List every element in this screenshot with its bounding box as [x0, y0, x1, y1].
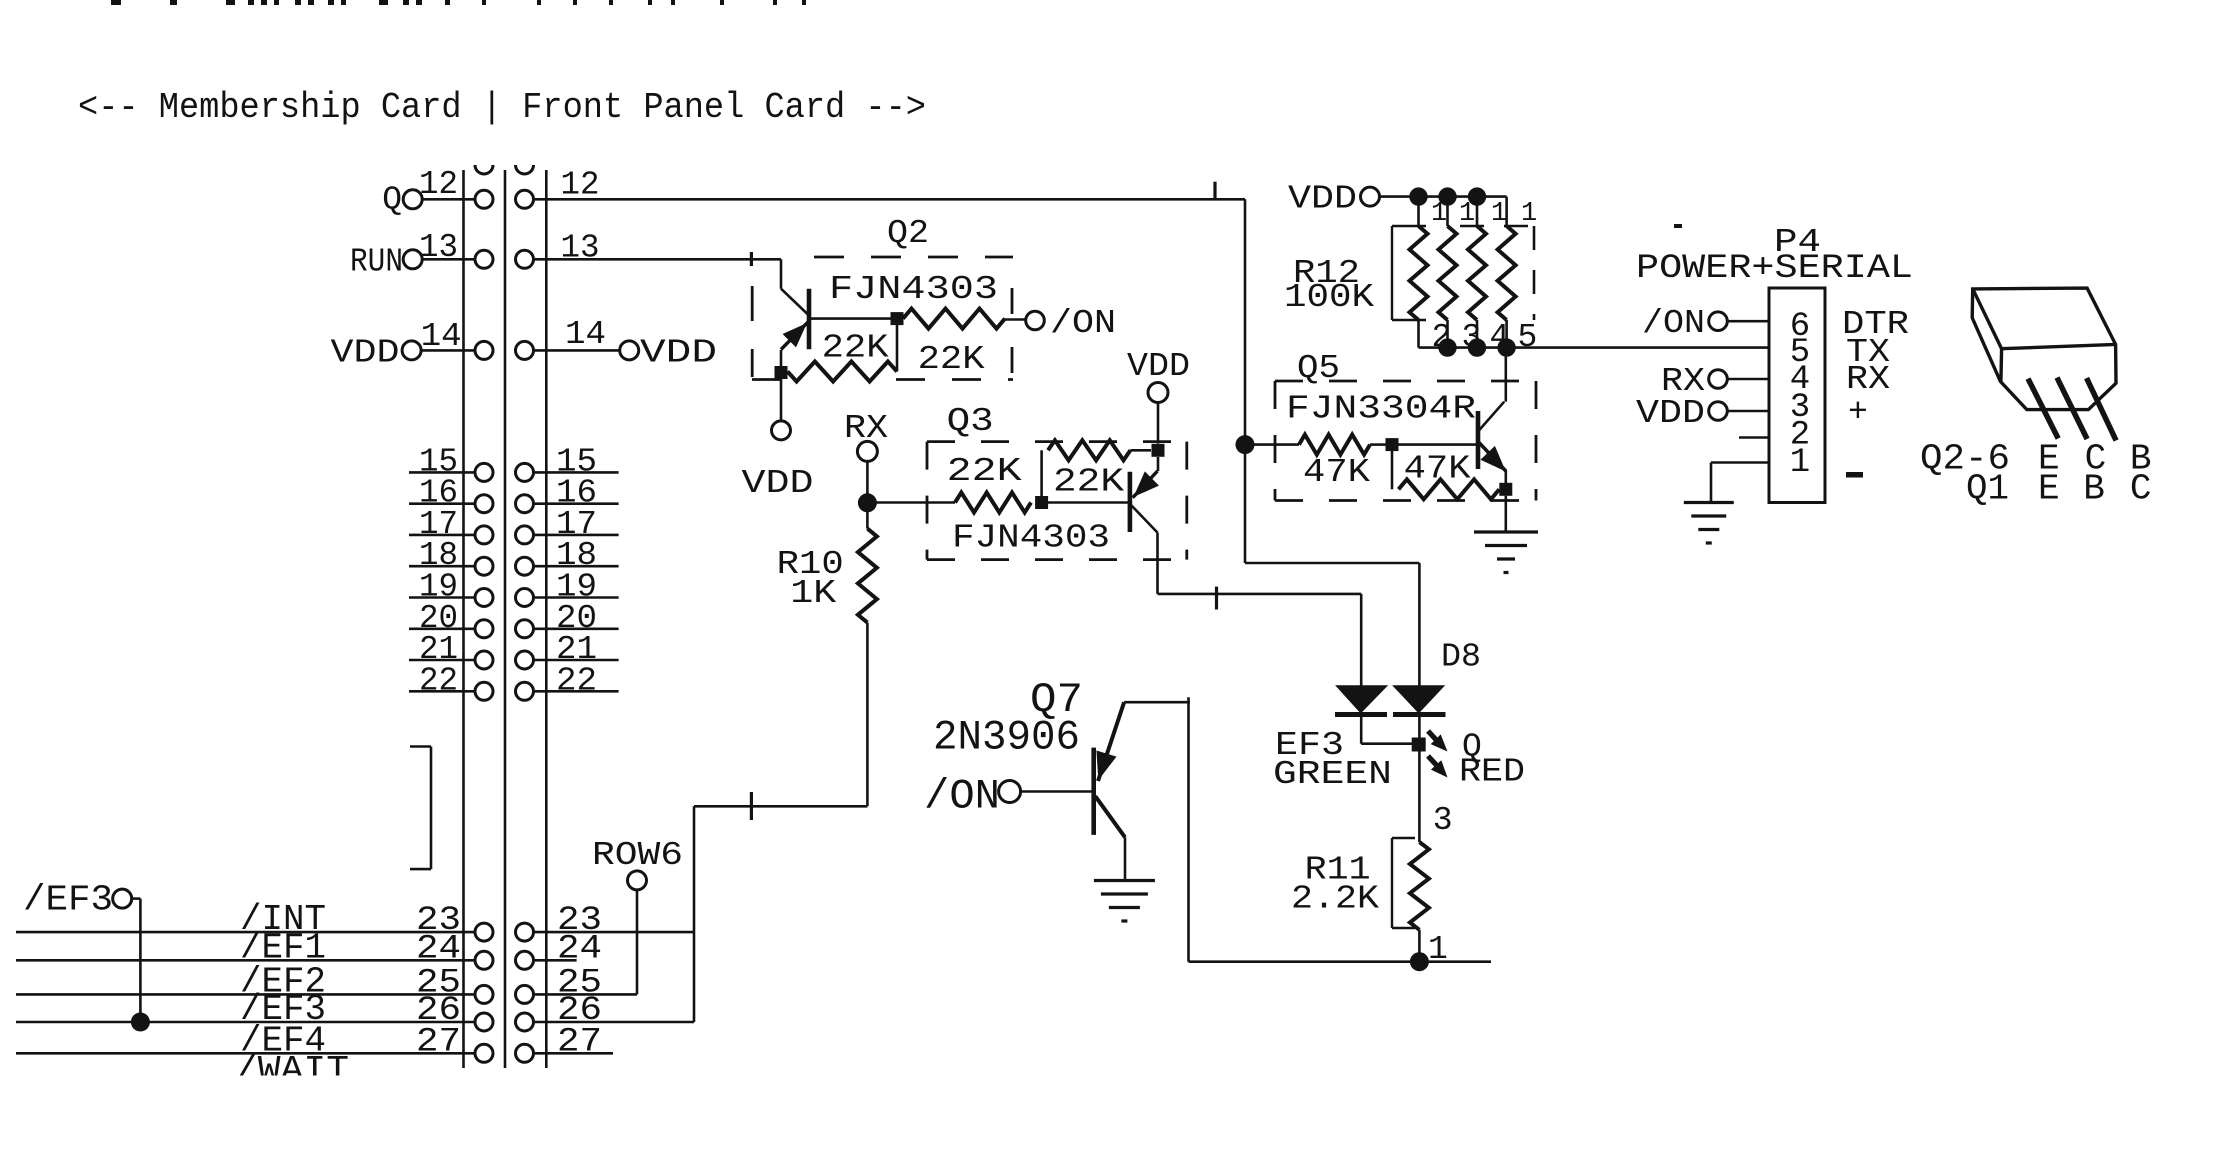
connector P4 body — [1769, 288, 1825, 503]
pin 16 labels — [419, 475, 597, 512]
wire R12 bottom bus to P4 pin 5 — [1419, 346, 1769, 349]
tick on R10 bottom wire — [750, 792, 753, 820]
pin 17 left circle — [475, 526, 493, 544]
package pinout row Q1 — [1966, 469, 2152, 510]
pin labels 1 1 1 1 — [1431, 199, 1537, 229]
node /EF3 terminal — [23, 880, 132, 921]
node /ON terminal P4 — [1642, 305, 1727, 342]
junction square Q2 base node — [891, 312, 904, 325]
P4 signal + — [1848, 394, 1868, 431]
svg-text:1: 1 — [1428, 931, 1448, 968]
label R11 — [1305, 852, 1371, 889]
wire to pins 23/26 — [693, 806, 696, 932]
ground P4 — [1684, 503, 1734, 544]
resistor R12 element 2 — [1439, 197, 1457, 348]
pin 17 right circle — [516, 526, 534, 544]
svg-text:D8: D8 — [1441, 639, 1481, 676]
pin 25 left circle — [475, 985, 493, 1003]
node RX terminal — [844, 410, 888, 461]
junction bus d — [1497, 338, 1515, 356]
svg-text:22K: 22K — [1053, 464, 1124, 501]
junction R12 pin1 c — [1468, 187, 1486, 205]
svg-text:RUN: RUN — [350, 243, 403, 280]
transistor Q7 base bar — [1091, 748, 1096, 835]
node VDD terminal under Q2 — [742, 421, 814, 502]
wire P4 pin 1 to ground — [1711, 463, 1769, 503]
P4 signal DTR — [1842, 306, 1909, 343]
wire Q5 emitter to node — [1505, 470, 1508, 483]
svg-text:24: 24 — [416, 930, 461, 968]
junction R11 bottom — [1410, 952, 1429, 971]
wire /INT pin 23 left — [16, 931, 484, 934]
wire RUN to connector — [422, 258, 484, 261]
svg-text:POWER+SERIAL: POWER+SERIAL — [1636, 250, 1913, 288]
label GREEN — [1273, 756, 1392, 793]
svg-text:5: 5 — [1518, 319, 1538, 356]
pin 23 right circle — [516, 923, 534, 941]
P4 signal TX — [1846, 334, 1890, 371]
svg-text:VDD: VDD — [1288, 181, 1357, 218]
svg-text:2.2K: 2.2K — [1291, 881, 1379, 918]
node /ON terminal Q2 — [1026, 305, 1116, 342]
net label /EF1 — [240, 927, 326, 968]
node /ON terminal Q7 — [924, 773, 1021, 821]
svg-text:1: 1 — [1491, 199, 1507, 229]
transistor Q3 label — [947, 403, 994, 440]
transistor Q2 emitter lead — [781, 321, 809, 350]
wire pin 15 right — [533, 471, 619, 474]
pin 13 left circle — [475, 250, 493, 268]
svg-text:C: C — [2130, 469, 2152, 510]
connector P4 label — [1774, 224, 1821, 261]
wire /EF2 pin 25 left — [16, 993, 484, 996]
pin 18 right circle — [516, 557, 534, 575]
svg-text:22K: 22K — [822, 330, 889, 367]
node VDD terminal right — [620, 335, 717, 372]
wire RUN net from pin 13 — [533, 258, 781, 261]
wire base node to Q5 — [1399, 443, 1479, 446]
wire Q2 base to node — [809, 317, 891, 320]
svg-text:13: 13 — [561, 230, 600, 267]
wire pin 17 right — [533, 534, 619, 537]
wire RX down — [866, 461, 869, 529]
transistor Q5 collector lead — [1478, 348, 1506, 432]
label R10 — [777, 546, 844, 583]
label 22K pullup — [1053, 464, 1124, 501]
transistor Q5 dashed box — [1275, 381, 1536, 501]
P4 pin number 3 — [1790, 389, 1810, 427]
wire pin 19 right — [533, 596, 619, 599]
pin 15 right circle — [516, 463, 534, 481]
svg-text:ROW6: ROW6 — [592, 837, 683, 874]
pin 19 labels — [419, 569, 597, 606]
node VDD terminal P4 — [1636, 395, 1727, 432]
pin 11 cut circles at top — [475, 165, 534, 174]
resistor R12 element 1 — [1410, 197, 1428, 348]
LED D8 red triangle — [1392, 685, 1445, 713]
node RUN terminal — [350, 243, 422, 280]
pin 23 left circle — [475, 923, 493, 941]
wire Q7 emitter to D8 net — [1124, 697, 1190, 961]
wire Q net to D8 — [1245, 563, 1419, 686]
svg-text:VDD: VDD — [1636, 395, 1705, 432]
pin 16 right circle — [516, 495, 534, 513]
pin 27 left circle — [475, 1044, 493, 1062]
stub P4 pin 2 — [1739, 436, 1769, 439]
net label /EF2 — [240, 961, 326, 1002]
bracket right of rows 23-27 gap — [410, 747, 431, 870]
net label /INT — [240, 899, 326, 940]
pin 13 right circle — [516, 250, 534, 268]
R12 dashed right edge — [1460, 226, 1534, 320]
LED arrow 1 — [1428, 731, 1448, 752]
svg-text:VDD: VDD — [640, 335, 717, 372]
pin 26 left circle — [475, 1013, 493, 1031]
junction R12 pin1 a — [1409, 187, 1427, 205]
junction square Q3 in-node — [1035, 496, 1048, 509]
svg-text:Q: Q — [382, 181, 402, 218]
net label /EF4 — [240, 1020, 326, 1061]
wire Q3 to D8 green — [1158, 594, 1362, 686]
stray dash mark — [1674, 224, 1682, 228]
transistor Q3 dashed box — [927, 442, 1187, 560]
node VDD terminal above Q3 — [1127, 348, 1190, 403]
tick on D8 wire — [1215, 587, 1218, 610]
svg-text:24: 24 — [557, 930, 602, 968]
pin 18 left circle — [475, 557, 493, 575]
transistor Q7 part number 2N3906 — [933, 714, 1080, 762]
svg-text:14: 14 — [565, 316, 606, 353]
pin 25 right circle — [516, 985, 534, 1003]
transistor Q3 emitter lead — [1133, 457, 1159, 498]
wire pin 19 left — [409, 596, 484, 599]
svg-text:Q1: Q1 — [1966, 469, 2009, 510]
connector P4 title POWER+SERIAL — [1636, 250, 1913, 288]
transistor Q2 collector lead — [781, 259, 809, 315]
pin 18 labels — [419, 537, 597, 574]
wire /ON to Q7 base — [1021, 790, 1094, 793]
wire VDD rail R12 — [1380, 195, 1507, 198]
svg-text:13: 13 — [419, 229, 458, 266]
wire pin 23 to pin 26 vertical — [693, 932, 696, 1022]
transistor Q3 part number FJN4303 — [952, 520, 1110, 557]
pin 21 labels — [419, 631, 597, 668]
junction square Q5 base node — [1386, 438, 1399, 451]
resistor R12 element 4 — [1498, 197, 1516, 348]
svg-text:47K: 47K — [1303, 454, 1370, 491]
label 47K base — [1303, 454, 1370, 491]
LED D8 red cathode bar — [1393, 712, 1446, 717]
transistor Q5 emitter lead — [1478, 442, 1506, 472]
junction square Q2 emitter node — [775, 366, 788, 379]
pin 14 left circle — [475, 341, 493, 359]
ground Q7 — [1094, 881, 1155, 922]
pin 20 right circle — [516, 620, 534, 638]
P4 pin number 5 — [1790, 334, 1810, 372]
junction square D8 node — [1412, 738, 1426, 752]
pin 12 right circle — [516, 190, 534, 208]
wire pin 18 left — [409, 565, 484, 568]
svg-text:22K: 22K — [918, 341, 985, 378]
transistor package TO-92 outline — [1972, 288, 2116, 410]
pin 24 labels — [416, 930, 602, 968]
svg-text:VDD: VDD — [331, 334, 400, 371]
label RED — [1459, 754, 1525, 791]
wire pin 23 right — [533, 931, 694, 934]
junction /EF3 — [131, 1013, 150, 1032]
wire Q5 emitter to ground — [1505, 496, 1508, 531]
svg-text:3: 3 — [1433, 802, 1453, 839]
svg-text:12: 12 — [419, 166, 458, 203]
svg-text:RX: RX — [1846, 361, 1890, 398]
title text — [78, 87, 926, 128]
R12 bracket — [1392, 226, 1426, 320]
svg-text:/ON: /ON — [1642, 305, 1705, 342]
wire Q2 emitter to VDD — [780, 350, 783, 421]
junction Q5 base net — [1236, 435, 1255, 454]
resistor R12 element 3 — [1468, 197, 1486, 348]
svg-text:GREEN: GREEN — [1273, 756, 1392, 793]
pin 19 right circle — [516, 589, 534, 607]
pin 16 left circle — [475, 495, 493, 513]
svg-text:<-- Membership Card | Front Pa: <-- Membership Card | Front Panel Card -… — [78, 87, 926, 128]
transistor Q2 dashed box — [752, 257, 1013, 380]
wire Q net from pin 12 — [533, 198, 1245, 201]
junction R12 pin1 b — [1438, 187, 1456, 205]
wire pin 15 left — [409, 471, 484, 474]
svg-text:47K: 47K — [1404, 451, 1471, 488]
svg-text:/ON: /ON — [924, 773, 1000, 821]
svg-text:+: + — [1848, 394, 1868, 431]
P4 signal RX — [1846, 361, 1890, 398]
svg-text:1: 1 — [1521, 199, 1537, 229]
pin 14 right circle — [516, 341, 534, 359]
resistor R10 1K — [858, 529, 877, 623]
P4 signal - (minus) — [1846, 472, 1863, 478]
label 2.2K — [1291, 881, 1379, 918]
node RX terminal P4 — [1661, 363, 1727, 400]
svg-text:VDD: VDD — [742, 465, 814, 502]
cut-off text remnants at top edge — [111, 0, 806, 5]
svg-text:22: 22 — [556, 662, 597, 699]
label pin 3 — [1433, 802, 1453, 839]
pin labels 2 3 4 5 — [1432, 319, 1538, 356]
label Q — [1462, 729, 1482, 766]
label 100K — [1284, 279, 1374, 316]
wire node to Q3 base — [1048, 501, 1130, 504]
P4 pin number 4 — [1790, 361, 1810, 399]
P4 pin number 2 — [1790, 417, 1810, 455]
wire pin 26 right — [533, 1021, 694, 1024]
pin 20 labels — [419, 600, 597, 637]
svg-text:1: 1 — [1790, 444, 1810, 482]
wire pin 27 right — [533, 1052, 613, 1055]
transistor Q5 part number FJN3304R — [1286, 391, 1476, 428]
transistor Q3 base bar — [1128, 472, 1133, 532]
junction square Q3 emitter node — [1152, 444, 1165, 457]
pin 15 left circle — [475, 463, 493, 481]
wire VDD to P4 pin 3 — [1727, 410, 1769, 413]
wire pin 20 left — [409, 627, 484, 630]
junction RX node — [858, 493, 877, 512]
P4 pin number 1 — [1790, 444, 1810, 482]
pin 21 left circle — [475, 651, 493, 669]
pin 21 right circle — [516, 651, 534, 669]
node ROW6 terminal — [592, 837, 683, 890]
transistor Q7 emitter lead — [1096, 702, 1124, 781]
label 1K — [790, 575, 836, 612]
svg-text:22K: 22K — [947, 453, 1022, 490]
transistor Q7 label — [1030, 676, 1083, 724]
wire D8 bottom bus — [1189, 960, 1492, 963]
svg-text:27: 27 — [557, 1023, 602, 1061]
LED arrow 2 — [1428, 756, 1448, 778]
wire /EF3 terminal down to /EF3 net — [131, 899, 140, 1022]
svg-text:/EF3: /EF3 — [23, 880, 113, 921]
label pin 1 — [1428, 931, 1448, 968]
wire pin 25 right — [533, 993, 637, 996]
wire pin 16 left — [409, 502, 484, 505]
wire Q3 collector down — [1156, 533, 1159, 594]
net label /EF3 — [240, 989, 326, 1030]
connector rail right — [545, 170, 548, 1068]
resistor Q2 22K (base-emitter) — [788, 325, 898, 382]
wire VDD to connector — [421, 349, 484, 352]
wire pin 21 right — [533, 659, 619, 662]
ground Q5 — [1474, 532, 1538, 573]
pin 27 labels — [416, 1023, 602, 1061]
transistor Q2 base bar — [807, 289, 812, 350]
pin 24 left circle — [475, 951, 493, 969]
LED D8 green cathode bar — [1335, 712, 1387, 717]
wire R10 bottom — [694, 623, 867, 807]
svg-text:FJN4303: FJN4303 — [952, 520, 1110, 557]
svg-text:1K: 1K — [790, 575, 836, 612]
connector rail middle — [504, 170, 507, 1068]
svg-text:FJN3304R: FJN3304R — [1286, 391, 1476, 428]
wire red cathode through node — [1418, 716, 1421, 842]
resistor R11 2.2K — [1410, 842, 1429, 962]
pin 26 right circle — [516, 1013, 534, 1031]
wire pin 24 right — [533, 959, 577, 962]
wire pin 22 right — [533, 690, 619, 693]
svg-text:/ON: /ON — [1050, 305, 1116, 342]
resistor Q3 22K series — [955, 493, 1031, 513]
package pinout row Q2-6 — [1920, 439, 2152, 480]
wire pin 21 left — [409, 659, 484, 662]
wire pin14 to VDD terminal right — [533, 349, 620, 352]
svg-text:Q3: Q3 — [947, 403, 994, 440]
pin 26 labels — [416, 992, 602, 1030]
connector J1/J2 card-edge rail left — [462, 170, 465, 1068]
pin 20 left circle — [475, 620, 493, 638]
svg-text:12: 12 — [561, 167, 600, 204]
package lead E — [2028, 379, 2058, 439]
transistor Q2 part number FJN4303 — [829, 271, 998, 308]
transistor Q5 base bar — [1476, 411, 1481, 469]
pin 23 labels — [416, 902, 602, 940]
junction bus b — [1438, 338, 1456, 356]
wire RX to P4 pin 4 — [1727, 378, 1769, 381]
wire RX node to R 22K — [867, 501, 955, 504]
pin 12 left circle — [475, 190, 493, 208]
junction square Q5 emitter node — [1499, 483, 1512, 496]
resistor Q5 47K base — [1299, 435, 1386, 455]
P4 pin number 6 — [1790, 308, 1810, 346]
svg-text:FJN4303: FJN4303 — [829, 271, 998, 308]
wire /EF1 pin 24 left — [16, 959, 484, 962]
wire to 47K — [1245, 443, 1299, 446]
svg-text:E: E — [2038, 469, 2060, 510]
svg-text:1: 1 — [1431, 199, 1447, 229]
pin 25 labels — [416, 964, 602, 1002]
wire /EF3 pin 26 left — [16, 1021, 484, 1024]
pin 14 labels — [421, 316, 606, 355]
pin 12 labels — [419, 166, 600, 204]
net label /WAIT (cut off) — [235, 1050, 349, 1091]
svg-text:22: 22 — [419, 662, 458, 699]
transistor Q3 collector lead — [1130, 504, 1157, 532]
package lead B — [2087, 378, 2117, 440]
wire /ON to P4 pin 6 — [1727, 320, 1769, 323]
svg-text:B: B — [2083, 469, 2105, 510]
svg-text:RED: RED — [1459, 754, 1525, 791]
svg-text:27: 27 — [416, 1023, 461, 1061]
wire pin 17 left — [409, 534, 484, 537]
resistor Q5 47K emitter — [1392, 451, 1499, 499]
node Q terminal — [382, 181, 422, 218]
wire pin 16 right — [533, 502, 619, 505]
pin 22 left circle — [475, 682, 493, 700]
junction bus c — [1468, 338, 1486, 356]
tick on RUN net wire — [750, 252, 753, 266]
svg-text:VDD: VDD — [1127, 348, 1190, 385]
label EF3 — [1275, 727, 1344, 764]
tick on Q net wire — [1213, 182, 1216, 201]
label R12 — [1293, 255, 1360, 292]
resistor Q2 22K output — [903, 309, 1026, 329]
pin 22 right circle — [516, 682, 534, 700]
pin 27 right circle — [516, 1044, 534, 1062]
wire Q to connector — [422, 198, 484, 201]
label 22K series — [947, 453, 1022, 490]
wire pin 22 left — [409, 690, 484, 693]
svg-text:2N3906: 2N3906 — [933, 714, 1080, 762]
package lead C — [2057, 378, 2087, 439]
label 22K outer — [918, 341, 985, 378]
resistor Q3 22K pullup — [1042, 440, 1151, 496]
svg-text:Q2: Q2 — [887, 215, 929, 252]
transistor Q7 collector lead — [1095, 796, 1125, 879]
transistor Q2 label — [887, 215, 929, 252]
pin 22 labels — [419, 662, 597, 699]
wire pin 20 right — [533, 627, 619, 630]
label 47K emitter — [1404, 451, 1471, 488]
LED D8 green anode wire already drawn; triangle — [1335, 685, 1388, 713]
wire VDD to Q3 emitter node — [1157, 403, 1160, 444]
label 22K inner — [822, 330, 889, 367]
node VDD terminal R12 — [1288, 181, 1380, 218]
transistor Q5 label — [1297, 350, 1340, 387]
pin 17 labels — [419, 506, 597, 543]
wire ROW6 to pin 25 — [636, 890, 639, 994]
pin 13 labels — [419, 229, 600, 267]
wire /EF4 pin 27 left — [16, 1052, 484, 1055]
node VDD terminal left — [331, 334, 422, 371]
svg-text:1: 1 — [1459, 199, 1475, 229]
wire Q net vertical — [1244, 199, 1247, 563]
R11 bracket — [1392, 838, 1415, 928]
